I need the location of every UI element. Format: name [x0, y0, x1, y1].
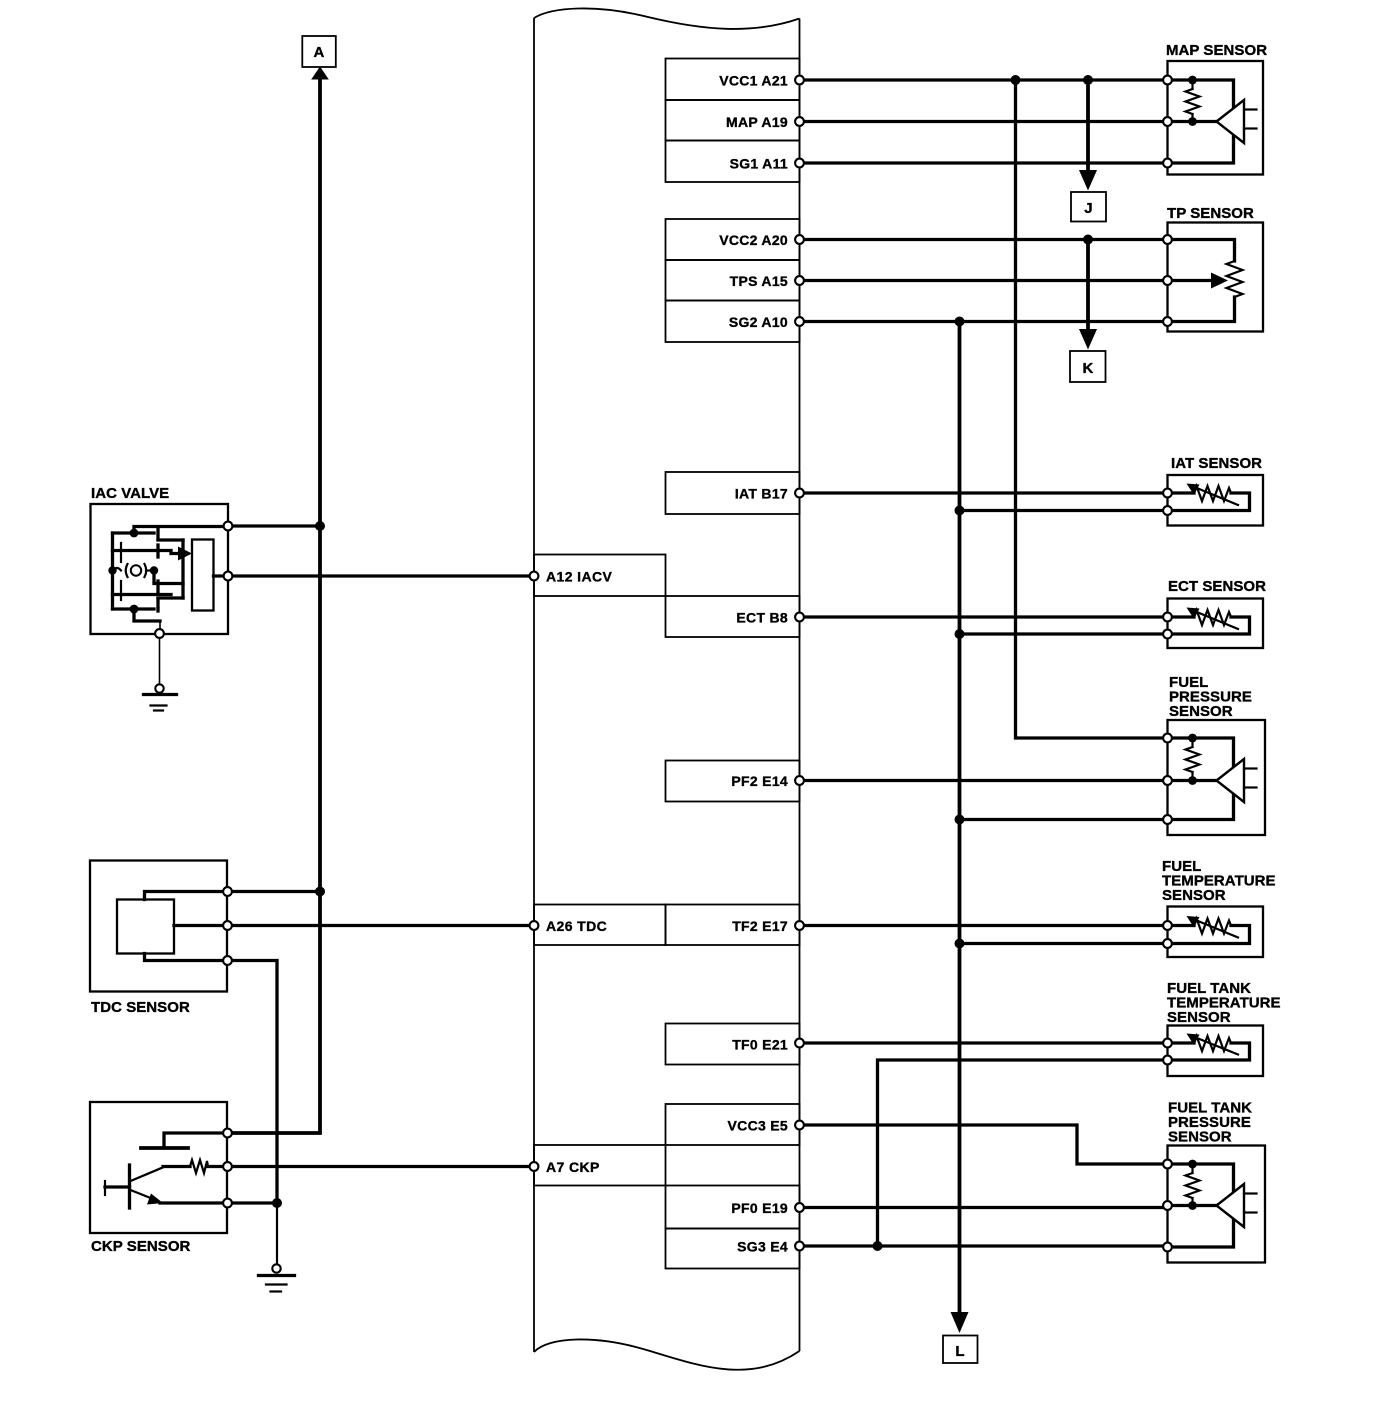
- pin circle fuel tank pressure sensor middle: [1163, 1201, 1172, 1210]
- pin circle fuel tank temperature sensor bottom: [1163, 1056, 1172, 1065]
- svg-text:ECT B8: ECT B8: [736, 610, 788, 626]
- svg-text:IAT SENSOR: IAT SENSOR: [1171, 455, 1262, 472]
- pin circle A26 TDC: [530, 921, 539, 930]
- junction dot SG2 x FP low: [955, 815, 965, 825]
- wire TDC top pin to bus A: [228, 890, 321, 893]
- junction dot VCC1 x J vertical: [1083, 75, 1093, 85]
- pin box ECT B8: [666, 596, 800, 637]
- node J box: [1071, 192, 1106, 222]
- svg-text:L: L: [955, 1343, 964, 1360]
- junction dot SG2 bus start: [955, 317, 965, 327]
- node L box: [943, 1336, 978, 1364]
- svg-text:VCC2 A20: VCC2 A20: [719, 232, 788, 248]
- pin circle fuel pressure sensor bottom: [1163, 815, 1172, 824]
- svg-text:SENSOR: SENSOR: [1162, 887, 1226, 904]
- pin circle ECT sensor bottom: [1163, 630, 1172, 639]
- pin circle ECT sensor top: [1163, 613, 1172, 622]
- wire fuel tank temperature sensor low pin down to SG3 wire: [878, 1060, 1168, 1246]
- IAC valve: [91, 485, 229, 634]
- svg-text:TF2 E17: TF2 E17: [732, 918, 788, 934]
- pin circle fuel temperature sensor top: [1163, 921, 1172, 930]
- svg-text:SENSOR: SENSOR: [1168, 1129, 1232, 1146]
- fuel tank temperature sensor: [1167, 980, 1281, 1076]
- node J arrow: [1079, 170, 1097, 191]
- pin circle TF0 E21: [795, 1039, 804, 1048]
- wire TF2 E17 to fuel temperature sensor: [800, 924, 1168, 927]
- pin circle TDC bottom: [223, 956, 232, 965]
- junction dot bus A x TDC wire: [315, 887, 325, 897]
- ECT sensor: [1168, 578, 1267, 648]
- pin circle IAC middle: [224, 572, 233, 581]
- MAP sensor: [1166, 42, 1267, 175]
- pin circle VCC3 E5: [795, 1121, 804, 1130]
- svg-text:A7 CKP: A7 CKP: [546, 1159, 600, 1175]
- svg-text:VCC3 E5: VCC3 E5: [728, 1118, 788, 1134]
- wire MAP A19 to MAP sensor: [800, 120, 1168, 123]
- svg-text:A12 IACV: A12 IACV: [546, 569, 612, 585]
- wire A7 CKP from CKP middle pin to ECM: [228, 1165, 535, 1168]
- pin circle TP sensor bottom: [1163, 317, 1172, 326]
- pin circle TDC top: [223, 887, 232, 896]
- wire J vertical from VCC1 wire: [1086, 80, 1090, 172]
- wire VCC1 A21 to MAP sensor: [800, 78, 1168, 81]
- svg-text:SG2 A10: SG2 A10: [729, 314, 788, 330]
- junction dot SG2 x FT low: [955, 939, 965, 949]
- wire ECT B8 to ECT sensor: [800, 615, 1168, 618]
- pin box VCC1 A21: [666, 59, 800, 101]
- wire bus A vertical from arrow A down to CKP sensor: [228, 80, 321, 1133]
- TP sensor: [1167, 205, 1263, 332]
- pin box A12 IACV: [534, 555, 666, 597]
- node K arrow: [1079, 329, 1097, 350]
- svg-text:IAT B17: IAT B17: [735, 486, 788, 502]
- svg-text:K: K: [1083, 360, 1094, 377]
- wire TPS A15 to TP sensor: [800, 279, 1168, 282]
- pin box VCC3 E5: [666, 1104, 800, 1145]
- CKP sensor: [90, 1102, 277, 1255]
- svg-text:SG3 E4: SG3 E4: [737, 1239, 788, 1255]
- svg-text:J: J: [1084, 200, 1092, 217]
- fuel tank pressure sensor: [1168, 1100, 1266, 1263]
- pin circle IAT sensor bottom: [1163, 506, 1172, 515]
- wire fuel pressure sensor low pin to SG2 bus: [960, 818, 1168, 821]
- pin circle IAC top: [224, 522, 233, 531]
- pin circle IAC bottom: [155, 629, 164, 638]
- pin circle VCC2 A20: [795, 235, 804, 244]
- pin circle fuel tank pressure sensor bottom: [1163, 1243, 1172, 1252]
- wire ECT sensor low pin to SG2 bus: [960, 632, 1168, 635]
- svg-text:MAP A19: MAP A19: [726, 114, 788, 130]
- pin circle fuel tank temperature sensor top: [1163, 1039, 1172, 1048]
- pin box PF0 E19: [666, 1186, 800, 1229]
- node K box: [1070, 351, 1106, 382]
- ECM band outline (wavy-edged column): [534, 8, 800, 1369]
- svg-text:ECT SENSOR: ECT SENSOR: [1168, 578, 1266, 595]
- wire A26 TDC from TDC middle pin to ECM: [228, 924, 535, 927]
- pin box SG2 A10: [666, 301, 800, 343]
- pin box MAP A19: [666, 100, 800, 141]
- TDC sensor: [90, 861, 228, 1017]
- svg-text:TF0 E21: TF0 E21: [732, 1037, 788, 1053]
- svg-text:A26 TDC: A26 TDC: [546, 918, 607, 934]
- pin box VCC2 A20: [666, 219, 800, 260]
- wire IAC top pin to bus A: [228, 524, 320, 527]
- pin circle TF2 E17: [795, 921, 804, 930]
- junction dot CKP bottom x TDC vertical: [272, 1198, 282, 1208]
- svg-text:CKP SENSOR: CKP SENSOR: [91, 1238, 191, 1255]
- junction dot bus A x IAC wire: [315, 521, 325, 531]
- wire IAT sensor low pin to SG2 bus: [960, 509, 1168, 512]
- pin circle VCC1 A21: [795, 76, 804, 85]
- fuel pressure sensor: [1168, 674, 1266, 835]
- node A arrow into box: [311, 67, 329, 80]
- junction dot SG2 x ECT low: [955, 629, 965, 639]
- wire SG3 E4 to fuel tank pressure sensor: [800, 1244, 1168, 1247]
- svg-text:SENSOR: SENSOR: [1167, 1009, 1231, 1026]
- svg-text:PF2 E14: PF2 E14: [731, 773, 788, 789]
- pin circle TDC middle: [223, 921, 232, 930]
- wire SG2 bus vertical down to L arrow: [958, 322, 962, 1316]
- pin circle ECT B8: [795, 613, 804, 622]
- wire K vertical from VCC2 wire: [1086, 240, 1090, 332]
- svg-text:TPS A15: TPS A15: [730, 273, 788, 289]
- wire TF0 E21 to fuel tank temperature sensor: [800, 1041, 1168, 1044]
- node L arrow: [951, 1312, 969, 1333]
- pin circle SG2 A10: [795, 317, 804, 326]
- svg-text:SG1 A11: SG1 A11: [730, 156, 788, 172]
- pin circle CKP middle: [223, 1162, 232, 1171]
- wire VCC1 bus to fuel pressure sensor: [1016, 82, 1168, 738]
- svg-text:MAP SENSOR: MAP SENSOR: [1166, 42, 1267, 59]
- pin circle MAP sensor middle: [1163, 117, 1172, 126]
- svg-text:SENSOR: SENSOR: [1169, 703, 1233, 720]
- junction dot VCC2 x K vertical: [1083, 235, 1093, 245]
- wire SG1 A11 to MAP sensor: [800, 161, 1168, 164]
- pin circle fuel pressure sensor top: [1163, 734, 1172, 743]
- pin circle IAT B17: [795, 489, 804, 498]
- pin circle TP sensor middle: [1163, 276, 1172, 285]
- pin box IAT B17: [666, 472, 800, 514]
- pin circle A12 IACV: [530, 572, 539, 581]
- fuel temperature sensor: [1162, 858, 1276, 957]
- svg-text:A: A: [314, 44, 325, 61]
- pin circle SG3 E4: [795, 1242, 804, 1251]
- pin box SG1 A11: [666, 141, 800, 183]
- pin circle MAP sensor top: [1163, 76, 1172, 85]
- pin box TF0 E21: [666, 1024, 800, 1065]
- wire fuel temperature sensor low pin to SG2 bus: [960, 942, 1168, 945]
- junction dot SG2 x IAT low: [955, 506, 965, 516]
- wire SG2 A10 to TP sensor: [800, 320, 1168, 323]
- wire PF0 E19 to fuel tank pressure sensor: [800, 1206, 1168, 1209]
- svg-text:TP SENSOR: TP SENSOR: [1167, 205, 1254, 222]
- wire TDC bottom pin down to CKP ground node: [228, 961, 278, 1204]
- wire PF2 E14 to fuel pressure sensor: [800, 779, 1168, 782]
- pin circle A7 CKP: [530, 1162, 539, 1171]
- ground below CKP sensor: [259, 1203, 295, 1292]
- ground below IAC valve: [144, 638, 177, 711]
- pin circle CKP bottom: [223, 1199, 232, 1208]
- svg-text:TDC SENSOR: TDC SENSOR: [91, 999, 190, 1016]
- pin box TPS A15: [666, 260, 800, 301]
- svg-text:VCC1 A21: VCC1 A21: [719, 73, 788, 89]
- pin circle IAT sensor top: [1163, 489, 1172, 498]
- IAT sensor: [1168, 455, 1264, 526]
- pin circle fuel tank pressure sensor top: [1163, 1160, 1172, 1169]
- pin circle fuel pressure sensor middle: [1163, 776, 1172, 785]
- junction dot SG3 x FTT vertical: [873, 1241, 883, 1251]
- pin circle TP sensor top: [1163, 235, 1172, 244]
- pin box PF2 E14: [666, 761, 800, 802]
- wire VCC3 E5 to fuel tank pressure sensor (step): [800, 1125, 1168, 1164]
- pin circle PF2 E14: [795, 776, 804, 785]
- pin circle fuel temperature sensor bottom: [1163, 939, 1172, 948]
- pin box SG3 E4: [666, 1229, 800, 1269]
- pin circle PF0 E19: [795, 1203, 804, 1212]
- pin box A7 CKP: [534, 1145, 666, 1186]
- pin circle MAP sensor bottom: [1163, 159, 1172, 168]
- wire VCC2 A20 to TP sensor: [800, 238, 1168, 241]
- pin circle TPS A15: [795, 276, 804, 285]
- wire VCC1 bus junction dot: [1011, 75, 1021, 85]
- svg-text:IAC VALVE: IAC VALVE: [91, 485, 169, 502]
- pin box TF2 E17: [666, 905, 800, 946]
- svg-text:PF0 E19: PF0 E19: [731, 1200, 788, 1216]
- pin circle SG1 A11: [795, 159, 804, 168]
- wire IAT B17 to IAT sensor: [800, 491, 1168, 494]
- pin circle CKP top: [223, 1129, 232, 1138]
- node A box: [302, 36, 336, 67]
- pin circle MAP A19: [795, 117, 804, 126]
- pin box A26 TDC: [534, 905, 666, 946]
- wire A12 IACV from IAC middle pin to ECM: [228, 574, 534, 577]
